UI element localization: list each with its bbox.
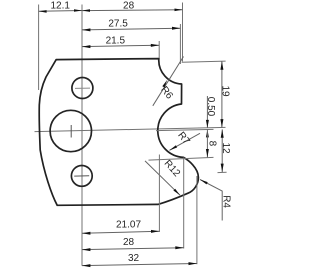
svg-text:12: 12: [220, 142, 231, 154]
wire: right ext line y=158 through R12 center: [149, 157, 214, 160]
dimension 21.5: [82, 35, 159, 48]
wire: bottom ext x=183.7: [183, 158, 185, 249]
svg-text:28: 28: [123, 0, 135, 11]
svg-text:21.5: 21.5: [106, 35, 126, 46]
part outline: [39, 59, 198, 206]
wire: right ext line lower pair: [156, 129, 214, 130]
dimension 19 (vertical right): [220, 61, 231, 127]
circle: small top hole: [72, 78, 93, 99]
center dash of top hole: [75, 87, 90, 89]
wire: bottom ext x=196.9: [196, 176, 198, 264]
leader R4: [200, 180, 231, 221]
wire: bottom ext x=159.4: [158, 155, 160, 233]
svg-text:19: 19: [220, 85, 231, 97]
center dash of bottom hole: [74, 175, 89, 177]
dimension 28 top: [82, 0, 183, 12]
wire: left extension line x=38.6: [38, 5, 40, 91]
wire: extension line for 28 top: [182, 3, 184, 62]
leader R6: [153, 57, 184, 106]
dimension 12.1: [39, 1, 82, 13]
wire: extension line for 27.5: [179, 24, 181, 64]
svg-text:12.1: 12.1: [50, 1, 70, 12]
dimension 32 (bottom): [82, 253, 197, 267]
svg-text:21.07: 21.07: [116, 220, 141, 231]
leader R7: [170, 130, 201, 150]
wire: right ext line y=61.5: [182, 61, 226, 62]
dimension 12 (vertical right): [220, 129, 231, 172]
center tick of large bore: [70, 125, 72, 138]
circle: large bore: [50, 110, 91, 151]
dimension 8 (vertical right): [206, 130, 218, 158]
leader R12 with center mark: [145, 158, 182, 195]
wire: horizontal center line through large circle: [35, 127, 226, 131]
svg-text:32: 32: [128, 253, 140, 264]
svg-text:27.5: 27.5: [108, 18, 128, 29]
svg-text:0.50: 0.50: [205, 97, 216, 117]
svg-text:R4: R4: [220, 195, 231, 208]
dimension 21.07 (bottom): [82, 220, 159, 235]
svg-text:28: 28: [123, 237, 135, 248]
dimension 27.5: [82, 18, 180, 31]
dimension 28 (bottom): [82, 237, 184, 251]
dimension 0.50 (vertical right small): [205, 96, 216, 137]
wire: main vertical center line: [81, 5, 83, 266]
wire: extension line for 21.5: [158, 41, 160, 60]
svg-text:8: 8: [207, 141, 218, 147]
wire: ext tick y=172.3 for dim 12: [218, 171, 227, 173]
circle: small bottom hole: [71, 166, 92, 187]
